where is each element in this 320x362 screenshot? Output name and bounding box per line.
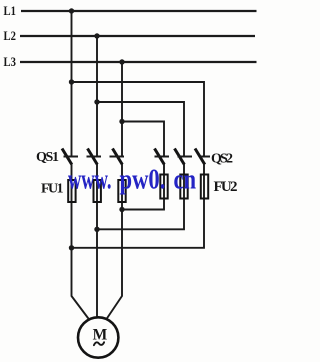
bus L1 <box>21 10 257 12</box>
wire branch phase3 to QS2 pole1 <box>122 122 164 158</box>
bus L2 <box>20 35 255 37</box>
switch QS2 blade pole3 <box>195 149 205 165</box>
node junction L1 tap <box>69 8 74 13</box>
motor tilde <box>94 342 104 345</box>
fuse FU1 pole1 <box>68 180 75 202</box>
svg-text:QS2: QS2 <box>211 152 233 167</box>
node A junction <box>69 245 74 250</box>
switch QS1 linkage bar (dashed) <box>64 156 127 158</box>
fuse FU1 pole2 <box>94 180 101 202</box>
switch QS2 blade pole1 <box>155 149 165 165</box>
switch QS1 blade pole2 <box>88 149 98 165</box>
svg-text:M: M <box>93 327 108 344</box>
node C junction <box>119 207 124 212</box>
wire branch phase2 to QS2 pole2 <box>97 102 184 157</box>
wire QS2 pole2 to node B <box>97 164 184 229</box>
wire phase2 vertical from L2 to QS1 pole2 <box>96 36 98 157</box>
fuse FU1 pole3 <box>118 180 125 202</box>
wire phase1 vertical from L1 to QS1 pole1 <box>71 11 73 157</box>
wire QS1 pole2 to motor middle (through FU1, node B) <box>96 164 98 318</box>
motor M circle <box>78 317 118 357</box>
switch QS1 blade pole1 <box>62 149 72 165</box>
svg-text:L2: L2 <box>4 28 16 43</box>
svg-text:cn: cn <box>174 163 197 195</box>
node junction L2 tap <box>94 33 99 38</box>
switch QS2 blade pole2 <box>175 149 185 165</box>
fuse FU2 pole1 <box>160 175 167 199</box>
node branch tap phase1 <box>69 79 74 84</box>
wire phase3 vertical from L3 to QS1 pole3 <box>121 62 123 157</box>
node B junction <box>94 227 99 232</box>
node branch tap phase2 <box>94 99 99 104</box>
wire QS1 pole1 to motor left (through FU1, node A) <box>72 164 90 320</box>
svg-text:pw0.: pw0. <box>120 163 166 195</box>
svg-text:L1: L1 <box>4 3 16 18</box>
wire branch phase1 to QS2 pole3 <box>72 82 205 157</box>
wire QS1 pole3 to motor right (through FU1, node C) <box>107 164 123 319</box>
node branch tap phase3 <box>119 119 124 124</box>
wire QS2 pole1 to node C <box>122 164 164 210</box>
switch QS1 blade pole3 <box>113 149 123 165</box>
svg-text:QS1: QS1 <box>36 150 59 165</box>
switch QS2 linkage bar (dashed) <box>155 156 211 158</box>
svg-text:FU2: FU2 <box>214 179 238 195</box>
fuse FU2 pole2 <box>180 175 187 199</box>
svg-text:L3: L3 <box>4 54 16 69</box>
node junction L3 tap <box>119 59 124 64</box>
fuse FU2 pole3 <box>201 175 208 199</box>
wire QS2 pole3 to node A <box>72 164 205 248</box>
svg-text:FU1: FU1 <box>41 182 64 197</box>
svg-text:www.: www. <box>68 164 111 196</box>
bus L3 <box>20 61 257 63</box>
